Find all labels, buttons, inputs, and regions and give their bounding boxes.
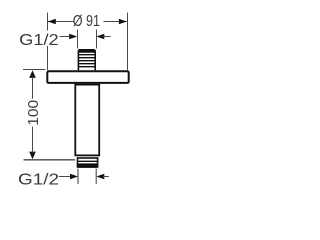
svg-text:G1/2: G1/2 xyxy=(18,172,59,189)
wire: G1/2 top leader line right xyxy=(103,36,111,38)
component: bottom thread block xyxy=(78,158,98,167)
node: left arrowhead of top dimension xyxy=(48,19,56,24)
wire: top dimension line left segment xyxy=(48,21,74,23)
wire: G1/2 bottom leader line right xyxy=(103,176,109,178)
wire: G1/2 top leader line left xyxy=(60,36,71,38)
node: G1/2 top arrowhead pointing right xyxy=(69,34,77,39)
wire: bottom right extension line xyxy=(95,169,97,184)
component: pipe body xyxy=(75,85,99,156)
node: G1/2 top arrowhead pointing left xyxy=(96,34,104,39)
wire: top dimension line right segment xyxy=(104,21,127,23)
wire: bottom thread line xyxy=(78,160,98,162)
wire: 100-dimension line upper segment xyxy=(32,77,34,99)
svg-text:100: 100 xyxy=(25,100,42,126)
component: bottom thread end cap xyxy=(77,163,99,167)
wire: G1/2 bottom leader line left xyxy=(59,176,72,178)
node: label G1/2 top xyxy=(18,31,59,47)
component: threaded nipple top body xyxy=(78,50,95,71)
node: G1/2 bottom arrowhead pointing left xyxy=(96,174,104,179)
wire: 100-dimension bottom extension line xyxy=(24,159,76,161)
wire: nipple thread line 1 xyxy=(79,54,95,56)
component: threaded nipple top cap xyxy=(78,49,96,53)
wire: right extension line of top dimension xyxy=(127,13,129,71)
wire: nipple thread line 4 xyxy=(79,63,95,65)
node: right arrowhead of top dimension xyxy=(119,19,127,24)
wire: left extension line of top dimension xyxy=(47,13,49,71)
wire: bottom left extension line xyxy=(77,169,79,184)
wire: nipple right extension line xyxy=(96,30,98,49)
node: 100-dimension up arrowhead xyxy=(29,70,36,78)
node: 100-dimension down arrowhead xyxy=(29,152,36,160)
svg-text:G1/2: G1/2 xyxy=(19,32,59,49)
wire: nipple thread line 3 xyxy=(79,60,95,62)
wire: 100-dimension top extension line xyxy=(23,69,46,71)
wire: nipple thread line 2 xyxy=(79,57,95,59)
svg-text:Ø 91: Ø 91 xyxy=(73,13,100,30)
wire: nipple thread line 5 xyxy=(79,66,95,68)
wire: 100-dimension line lower segment xyxy=(32,127,34,153)
wire: nipple left extension line xyxy=(77,30,79,49)
component: ceiling flange xyxy=(47,71,128,83)
node: G1/2 bottom arrowhead pointing right xyxy=(70,174,78,179)
